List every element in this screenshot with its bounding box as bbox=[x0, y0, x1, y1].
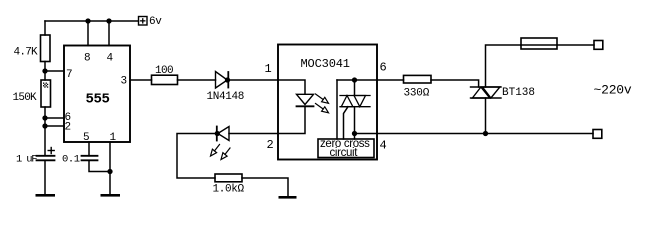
junction at D1 cathode bbox=[226, 78, 230, 82]
junction pin4 rail bbox=[353, 132, 357, 136]
terminal T2 bbox=[593, 130, 602, 139]
svg-text:MOC3041: MOC3041 bbox=[301, 57, 350, 71]
internal triac gate line bbox=[344, 107, 349, 139]
wire internal triac to pin4 rail bbox=[354, 107, 356, 139]
junction BT138/rail bbox=[484, 132, 488, 136]
resistor R4 1.0k body bbox=[215, 174, 242, 182]
junction at LED cathode bbox=[215, 132, 219, 136]
wire C2 to ground node bbox=[89, 160, 110, 171]
capacitor C1 1uF plates bbox=[37, 156, 55, 161]
junction node pin7 bbox=[43, 69, 47, 73]
svg-text:555: 555 bbox=[86, 92, 110, 108]
svg-text:~220v: ~220v bbox=[594, 83, 632, 98]
wire R3 to D1 bbox=[178, 79, 216, 81]
wire output rail bbox=[355, 133, 594, 135]
junction node pin2 bbox=[43, 124, 47, 128]
ground G3 bbox=[279, 196, 297, 199]
ground G1 bbox=[36, 194, 56, 197]
+6v terminal symbol bbox=[139, 17, 148, 26]
svg-text:1 uF: 1 uF bbox=[16, 154, 37, 166]
wire 150K to capacitor C1 bbox=[44, 107, 46, 155]
diode D1 1N4148 bbox=[216, 72, 229, 89]
svg-text:circuit: circuit bbox=[330, 147, 359, 159]
wire MOC pin2 internal bbox=[278, 106, 305, 133]
IC U1 555 body bbox=[64, 46, 130, 143]
wire 555 pin 4 to rail bbox=[108, 21, 110, 46]
wire C1 to ground bbox=[44, 160, 46, 194]
wire R4 to ground bbox=[242, 178, 288, 196]
svg-text:150K: 150K bbox=[13, 92, 38, 104]
internal LED emission arrows bbox=[316, 94, 329, 113]
svg-text:1: 1 bbox=[265, 62, 272, 76]
wire 555 pin 8 to rail bbox=[87, 21, 89, 46]
wire MOC pin1 internal bbox=[278, 80, 305, 94]
ground G2 bbox=[101, 194, 121, 197]
fuse F1 bbox=[521, 38, 557, 49]
wire 555 pin3 to R3 bbox=[130, 79, 152, 81]
LED D2 emission arrows bbox=[211, 145, 231, 160]
wire LED to MOC pin2 bbox=[229, 133, 278, 135]
wire 555 pin5 to C2 bbox=[88, 142, 90, 156]
junction node pin6 bbox=[43, 116, 47, 120]
svg-text:8: 8 bbox=[84, 53, 91, 65]
svg-text:100: 100 bbox=[155, 65, 173, 77]
svg-text:6v: 6v bbox=[149, 16, 162, 28]
wire junction to internal triac bbox=[354, 80, 356, 96]
capacitor C2 0.1 plates bbox=[82, 156, 98, 161]
svg-text:2: 2 bbox=[65, 122, 72, 134]
wire rail to 4.7K resistor bbox=[44, 21, 46, 35]
junction rail/pin4 bbox=[107, 19, 111, 23]
wire 555 pin1 to ground bbox=[109, 142, 111, 194]
svg-text:1N4148: 1N4148 bbox=[207, 91, 245, 103]
wire 4.7K to 150K bbox=[44, 62, 46, 81]
wire node to 555 pin 2 bbox=[45, 125, 64, 127]
wire MOC pin6 line bbox=[337, 79, 404, 81]
svg-text:330Ω: 330Ω bbox=[404, 88, 430, 100]
svg-text:4: 4 bbox=[380, 139, 387, 153]
optocoupler U2 MOC3041 body bbox=[278, 45, 377, 160]
svg-text:7: 7 bbox=[66, 69, 73, 81]
internal vertical wire left (zero-cross feed) bbox=[336, 80, 338, 139]
internal LED of MOC bbox=[297, 94, 314, 106]
wire node to 555 pin 7 bbox=[45, 70, 64, 72]
junction internal triac top bbox=[353, 78, 357, 82]
triac Q1 BT138 bbox=[471, 87, 502, 98]
LED D2 bbox=[217, 127, 229, 141]
wire BT138 MT2 up to fuse line bbox=[486, 45, 522, 87]
label zero cross circuit bbox=[320, 138, 370, 159]
wire LED branch corner bbox=[177, 134, 216, 179]
junction C2/pin1 ground node bbox=[108, 170, 112, 174]
svg-text:3: 3 bbox=[121, 76, 128, 88]
svg-text:6: 6 bbox=[380, 61, 387, 75]
resistor R3 100 body bbox=[152, 75, 178, 84]
svg-text:4: 4 bbox=[107, 53, 114, 65]
internal triac of MOC bbox=[340, 96, 370, 107]
svg-text:BT138: BT138 bbox=[502, 87, 535, 99]
junction rail/pin8 bbox=[86, 19, 90, 23]
wire +6v supply rail bbox=[45, 20, 139, 22]
plus polarity mark C1 bbox=[48, 148, 54, 154]
wire BT138 MT1 down to rail bbox=[485, 98, 487, 134]
wire D1 to MOC pin1 bbox=[229, 79, 278, 81]
terminal T1 bbox=[594, 41, 603, 50]
wire R5 to BT138 gate bbox=[431, 80, 479, 87]
svg-text:1.0kΩ: 1.0kΩ bbox=[213, 184, 245, 196]
svg-text:2: 2 bbox=[267, 138, 274, 152]
resistor R5 330 body bbox=[404, 75, 432, 83]
svg-text:0.1: 0.1 bbox=[62, 154, 80, 166]
thermistor mark on 150K bbox=[43, 83, 48, 88]
resistor R2 150K body bbox=[41, 80, 51, 107]
resistor R1 4.7K body bbox=[41, 35, 51, 62]
wire fuse to terminal T1 bbox=[557, 44, 594, 46]
zero cross circuit box bbox=[318, 139, 374, 158]
svg-text:4.7K: 4.7K bbox=[14, 47, 39, 59]
wire node to 555 pin 6 bbox=[45, 117, 64, 119]
